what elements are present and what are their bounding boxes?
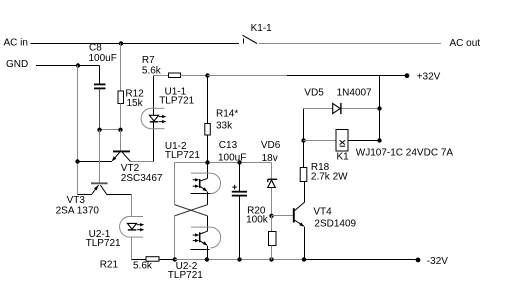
svg-text:C8: C8 xyxy=(89,43,102,54)
capacitor C8 bottom plate xyxy=(94,87,106,89)
transistor VT2 base bar xyxy=(113,150,130,152)
capacitor C13 bottom plate xyxy=(232,195,247,197)
optocoupler U1-2 enclosure top line xyxy=(191,172,210,174)
wire U1-1 column vertical xyxy=(153,76,155,162)
wire cross link y=130 xyxy=(100,129,121,131)
junction dot K1 coil / right vertical xyxy=(377,138,381,142)
svg-text:100k: 100k xyxy=(246,215,269,226)
junction dot bottom rail / R20 column xyxy=(269,257,273,261)
diode VD5 cathode bar xyxy=(340,103,342,114)
junction dot GND / left column xyxy=(76,63,80,67)
wire C13 top lead xyxy=(239,163,241,192)
capacitor C8 top plate xyxy=(94,83,106,85)
wire opto left column top xyxy=(174,163,176,205)
optocoupler U2-1 enclosure bottom line xyxy=(130,236,143,238)
wire C13 bottom lead xyxy=(239,196,241,259)
wire VT2 collector to U1 column xyxy=(131,161,154,163)
wire VD5 cathode wire xyxy=(342,108,380,110)
wire bottom rail black part xyxy=(304,259,419,261)
optocoupler U1-2 light arrow 1 xyxy=(193,179,197,181)
resistor R12 xyxy=(118,91,124,104)
svg-text:15k: 15k xyxy=(127,98,144,109)
svg-text:TLP721: TLP721 xyxy=(86,238,121,249)
svg-text:100uF: 100uF xyxy=(218,152,246,163)
svg-text:2SD1409: 2SD1409 xyxy=(314,219,356,230)
svg-text:R21: R21 xyxy=(100,260,119,271)
optocoupler U2-2 enclosure bottom line xyxy=(191,249,210,251)
junction dot R12/VT2-base column y=130 xyxy=(118,128,122,132)
junction dot R7 / R14 column xyxy=(205,73,209,77)
optocoupler U2-1 LED triangle xyxy=(127,223,136,229)
optocoupler U2-1 enclosure left arc xyxy=(120,216,130,237)
wire U2-1 column top lead xyxy=(131,195,133,217)
optocoupler U2-2 emitter lead xyxy=(207,246,209,260)
optocoupler U1-1 light arrow 1 xyxy=(159,116,164,118)
wire AC-in horizontal y=43.5 xyxy=(31,43,240,45)
optocoupler U1-2 emitter lead xyxy=(207,192,209,205)
transistor VT2 collector diagonal xyxy=(122,152,130,161)
svg-text:VT4: VT4 xyxy=(313,206,332,217)
optocoupler U1-2 collector lead xyxy=(207,163,209,179)
wire bottom rail gray part xyxy=(175,259,304,261)
svg-text:-32V: -32V xyxy=(427,256,448,267)
wire VT2 emitter to left column xyxy=(78,161,113,163)
wire opto left column bottom xyxy=(174,216,176,260)
svg-text:WJ107-1C 24VDC 7A: WJ107-1C 24VDC 7A xyxy=(356,147,454,158)
optocoupler U2-2 light arrow 1 xyxy=(193,234,197,236)
optocoupler U2-2 light arrow 2 xyxy=(193,240,197,242)
optocoupler U2-1 light arrow 1 xyxy=(137,224,142,226)
wire R18 top lead xyxy=(303,141,305,168)
wire left column x=77.5 vertical xyxy=(77,66,79,195)
wire VD6 top lead xyxy=(271,163,273,180)
svg-text:AC out: AC out xyxy=(450,38,481,49)
wire R20 bottom lead xyxy=(271,246,273,260)
junction dot left column / VT2 emitter wire xyxy=(75,159,79,163)
junction dot VD6 / VT4 base xyxy=(269,214,273,218)
junction dot mid rail / U1-2 collector xyxy=(205,160,209,164)
terminal dot -32V xyxy=(416,258,421,263)
optocoupler U2-2 enclosure top line xyxy=(191,226,210,228)
svg-text:2.7k 2W: 2.7k 2W xyxy=(311,171,348,182)
wire K1 coil right wire xyxy=(348,140,380,142)
resistor R7 xyxy=(169,73,181,78)
junction dot bottom rail / VT4 emitter xyxy=(302,257,306,261)
svg-text:5.6k: 5.6k xyxy=(142,66,162,77)
svg-text:TLP721: TLP721 xyxy=(168,270,203,281)
optocoupler U1-1 LED triangle xyxy=(149,115,158,121)
relay contact K1-1 fixed contact tick xyxy=(243,39,245,44)
wire VT3 base lead xyxy=(99,130,101,183)
junction dot C8/VT3-base column y=130 xyxy=(97,128,101,132)
optocoupler U1-2 emitter diagonal xyxy=(200,186,207,191)
wire R14 bottom lead xyxy=(207,135,209,163)
wire VT3 emitter to left column xyxy=(78,194,93,196)
svg-text:TLP721: TLP721 xyxy=(165,150,200,161)
junction dot bottom rail / opto left column xyxy=(173,257,177,261)
zener VD6 cathode bar xyxy=(268,178,278,180)
wire R14 top lead xyxy=(207,76,209,124)
svg-text:2SC3467: 2SC3467 xyxy=(121,173,163,184)
wire R12 bottom lead xyxy=(120,104,122,131)
capacitor C13 plus sign xyxy=(232,186,237,188)
wire VT3 collector to U2-1 column xyxy=(107,194,132,196)
svg-text:+32V: +32V xyxy=(417,71,441,82)
junction dot VD5 cathode / right vertical xyxy=(377,106,381,110)
wire opto crossing diagonal 2 xyxy=(175,205,208,216)
terminal dot +32V xyxy=(405,73,410,78)
transistor VT4 emitter diagonal xyxy=(295,220,304,226)
wire VD6 bottom lead xyxy=(271,188,273,216)
optocoupler U1-1 enclosure left arc xyxy=(141,108,151,128)
optocoupler U1-2 enclosure bottom line xyxy=(191,193,211,195)
resistor R14 xyxy=(205,124,211,136)
optocoupler U1-2 collector diagonal xyxy=(200,178,208,181)
wire GND horizontal y=65.5 xyxy=(36,65,100,67)
wire VT4 emitter lead xyxy=(304,227,306,260)
svg-text:K1-1: K1-1 xyxy=(251,23,273,34)
svg-text:5.6k: 5.6k xyxy=(133,260,153,271)
optocoupler U2-1 enclosure top line xyxy=(130,216,143,218)
optocoupler U2-2 enclosure right arc xyxy=(210,227,220,248)
optocoupler U1-1 enclosure bottom line xyxy=(151,128,164,130)
svg-text:VD6: VD6 xyxy=(261,140,281,151)
optocoupler U1-2 emitter arrowhead xyxy=(203,187,208,192)
relay coil K1 box xyxy=(336,130,348,152)
resistor R20 xyxy=(269,232,277,246)
transistor VT2 emitter diagonal xyxy=(113,152,120,160)
optocoupler U2-1 light arrow 2 xyxy=(137,229,142,231)
svg-text:R7: R7 xyxy=(142,55,155,66)
optocoupler U1-1 LED cathode bar xyxy=(150,121,158,123)
diode VD5 triangle xyxy=(333,103,341,113)
transistor VT2 emitter arrowhead xyxy=(112,156,117,161)
svg-text:VD5: VD5 xyxy=(304,88,324,99)
wire mid rail y=162.5 xyxy=(175,162,272,164)
optocoupler U1-2 light arrow 2 xyxy=(193,185,197,187)
wire +32V rail gray part xyxy=(207,75,287,77)
wire R21 left lead xyxy=(132,259,147,261)
wire +32V to VD5/K1 vertical xyxy=(379,76,381,141)
junction dot bottom rail / C13 xyxy=(237,257,241,261)
resistor R21 xyxy=(146,257,159,262)
svg-text:R14*: R14* xyxy=(216,109,238,120)
relay coil K1 inner mark xyxy=(340,140,345,144)
wire VD5 anode column xyxy=(303,109,305,141)
svg-text:AC in: AC in xyxy=(4,38,28,49)
wire R20 top lead xyxy=(271,216,273,232)
junction dot AC-in / R12 column xyxy=(119,41,123,45)
relay contact K1-1 blade xyxy=(243,35,258,43)
optocoupler U1-2 base bar xyxy=(199,179,201,188)
transistor VT3 emitter diagonal xyxy=(92,185,99,194)
optocoupler U1-1 light arrow 2 xyxy=(159,121,164,123)
optocoupler U2-2 emitter arrowhead xyxy=(203,241,208,246)
optocoupler U2-2 collector diagonal xyxy=(200,231,208,234)
wire R7 right lead to junction xyxy=(181,75,208,77)
svg-text:TLP721: TLP721 xyxy=(159,96,194,107)
transistor VT3 emitter arrowhead xyxy=(94,185,98,190)
optocoupler U2-2 collector lead xyxy=(207,216,209,231)
svg-text:VT3: VT3 xyxy=(67,195,86,206)
svg-text:GND: GND xyxy=(6,59,28,70)
wire +32V rail black part xyxy=(287,75,407,77)
svg-text:2SA 1370: 2SA 1370 xyxy=(56,206,100,217)
junction dot bottom rail / U2-2 emitter xyxy=(205,257,209,261)
wire K1 coil left wire xyxy=(304,140,337,142)
svg-text:K1: K1 xyxy=(337,152,350,163)
svg-text:18v: 18v xyxy=(262,153,278,164)
svg-text:100uF: 100uF xyxy=(89,53,117,64)
transistor VT3 base bar xyxy=(91,182,108,184)
wire VT2 base lead xyxy=(120,130,122,151)
transistor VT4 base bar xyxy=(293,208,295,222)
wire VT4 collector lead xyxy=(304,182,306,203)
optocoupler U1-2 enclosure right arc xyxy=(210,173,220,194)
wire U2-1 column bottom lead xyxy=(131,237,133,259)
wire C8 top lead xyxy=(99,66,101,85)
optocoupler U2-2 emitter diagonal xyxy=(200,241,207,245)
transistor VT4 collector diagonal xyxy=(295,202,305,210)
svg-text:1N4007: 1N4007 xyxy=(337,88,372,99)
wire opto crossing diagonal 1 xyxy=(175,205,208,216)
wire AC-out horizontal xyxy=(259,43,441,45)
wire VT4 base wire xyxy=(272,215,294,217)
zener VD6 triangle xyxy=(268,180,276,188)
wire VD5 anode wire xyxy=(304,108,333,110)
wire C8 bottom lead xyxy=(99,89,101,130)
wire R7 left lead xyxy=(154,75,169,77)
junction dot R18 / K1 coil wire xyxy=(301,138,305,142)
svg-text:C13: C13 xyxy=(219,140,238,151)
transistor VT4 emitter arrowhead xyxy=(299,222,304,226)
junction dot mid rail / C13 xyxy=(237,160,241,164)
wire R12 top lead xyxy=(120,44,122,92)
capacitor C13 top plate xyxy=(232,191,247,193)
resistor R18 xyxy=(300,168,307,182)
svg-text:33k: 33k xyxy=(216,120,233,131)
transistor VT3 collector diagonal xyxy=(100,185,106,195)
optocoupler U2-1 LED cathode bar xyxy=(128,229,136,231)
wire R21 right lead xyxy=(159,259,175,261)
optocoupler U2-2 base bar xyxy=(199,232,201,242)
optocoupler U1-1 enclosure top line xyxy=(151,107,164,109)
